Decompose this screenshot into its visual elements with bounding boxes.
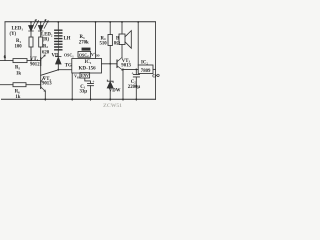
- svg-text:VD: VD: [52, 54, 59, 59]
- wire C2 to ground: [135, 77, 137, 100]
- svg-text:(R): (R): [43, 38, 50, 43]
- wire input lead y84.7: [0, 84, 13, 86]
- pin box OSC2: [78, 52, 91, 58]
- svg-text:1k: 1k: [15, 95, 20, 100]
- wire coil to diode: [57, 50, 59, 57]
- wire ENV to C1: [85, 78, 91, 83]
- svg-text:LH: LH: [64, 37, 71, 42]
- svg-text:R1: R1: [16, 39, 21, 44]
- wire speaker to VT3 collector: [121, 45, 123, 58]
- wire zener to ground: [109, 88, 111, 100]
- resistor R6: [13, 83, 26, 87]
- transistor VT2: [40, 81, 42, 89]
- wire diode to TG: [57, 64, 59, 70]
- wire speaker branch: [121, 22, 123, 34]
- svg-text:VT1: VT1: [30, 57, 39, 62]
- wire right edge drop: [155, 22, 157, 69]
- IC U1 KD-156 box: [72, 59, 102, 74]
- wire VT2 emitter to ground: [44, 91, 46, 100]
- resistor R2: [39, 37, 43, 47]
- wire TG into IC: [58, 69, 71, 71]
- svg-text:R3: R3: [80, 35, 85, 40]
- svg-text:ZCW51: ZCW51: [103, 103, 122, 109]
- wire VT2 collector to TG node: [41, 70, 59, 76]
- svg-text:VDW: VDW: [109, 89, 121, 94]
- wire rail to 7809: [137, 22, 139, 65]
- resistor R4: [108, 35, 112, 46]
- wire coil branch from rail: [57, 22, 59, 30]
- wire LED2 to R2: [40, 31, 42, 37]
- resistor R3: [82, 48, 90, 50]
- wire R4 to zener: [109, 46, 111, 82]
- transistor VT3: [116, 60, 118, 68]
- wire C1 to ground: [90, 86, 92, 101]
- svg-text:TG: TG: [65, 64, 72, 69]
- svg-text:9013: 9013: [42, 81, 52, 86]
- svg-text:510: 510: [100, 42, 108, 47]
- svg-text:(Y): (Y): [10, 32, 17, 37]
- resistor R5: [13, 59, 27, 63]
- wire main vertical R2/VT1/VT2: [40, 47, 42, 81]
- wire LED1 branch: [30, 22, 32, 26]
- wire Vdd pin: [95, 22, 97, 59]
- wire left drop to node 6: [4, 22, 6, 61]
- resistor R1: [29, 37, 33, 47]
- IC U2 7809 box: [138, 65, 153, 74]
- svg-text:R6: R6: [15, 90, 20, 95]
- svg-text:R2: R2: [43, 44, 48, 49]
- junction dots: [30, 21, 139, 100]
- zener VDW: [107, 80, 113, 82]
- wire 7809 to G: [153, 68, 156, 70]
- svg-text:270k: 270k: [79, 41, 89, 46]
- svg-text:LED1: LED1: [12, 27, 24, 32]
- wire G to ground: [155, 69, 157, 99]
- svg-text:G: G: [152, 75, 156, 80]
- wire bottom rail: [2, 98, 156, 100]
- pin box ENV: [80, 73, 90, 78]
- svg-text:9012: 9012: [30, 63, 40, 68]
- svg-text:ENV: ENV: [81, 74, 89, 78]
- wire 7809 output to node: [123, 68, 138, 70]
- wire top rail: [5, 21, 156, 23]
- wire LED1 to R1: [30, 31, 32, 37]
- diode VD: [56, 56, 61, 58]
- capacitor C1: [88, 83, 94, 85]
- svg-text:8Ω: 8Ω: [114, 41, 120, 46]
- svg-text:33μ: 33μ: [80, 90, 88, 95]
- wire VT3 emitter to ground: [122, 70, 124, 100]
- inductor LH: [55, 30, 62, 50]
- wire R1 to base node: [30, 47, 32, 61]
- svg-text:R5: R5: [15, 66, 20, 71]
- svg-text:9013: 9013: [121, 63, 131, 68]
- svg-text:2200μ: 2200μ: [128, 85, 141, 90]
- transistor VT1: [40, 58, 42, 66]
- wire R5 to VT1 base: [27, 60, 41, 62]
- terminal G: [157, 74, 159, 76]
- LED D1: [29, 26, 34, 32]
- speaker B: [119, 34, 125, 45]
- svg-text:KD–156: KD–156: [79, 65, 97, 71]
- wire R6 to VT2 base: [26, 84, 41, 86]
- wire Vss pin: [71, 73, 73, 100]
- wire input lead y60.5: [0, 60, 13, 62]
- capacitor C2: [135, 69, 137, 74]
- wire LED2 branch: [40, 22, 42, 26]
- wire R4 branch: [109, 22, 111, 35]
- wire IC out to VT3 base: [102, 63, 118, 65]
- svg-text:620: 620: [42, 50, 50, 55]
- svg-text:100: 100: [15, 45, 23, 50]
- svg-text:IC2: IC2: [141, 61, 148, 66]
- LED D2: [38, 26, 43, 32]
- svg-text:7809: 7809: [141, 69, 151, 74]
- svg-text:1k: 1k: [16, 72, 21, 77]
